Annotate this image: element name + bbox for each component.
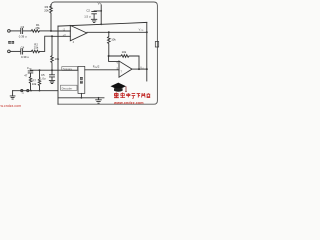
block T2 box [61,85,78,90]
svg-text:10k: 10k [111,37,116,41]
capacitor C2 [92,12,97,20]
ground for C2 [91,19,96,22]
V+ rail wire (sloped) [58,22,147,26]
node D junction (R4 to U2 feedback) [108,55,110,57]
feedback resistor R6 [109,55,139,58]
wire J2 to C4 [10,50,20,52]
svg-text:V+: V+ [98,2,102,6]
node E2 junction (output2 on right bus) [146,68,148,70]
node A junction [50,30,52,32]
svg-text:20k: 20k [44,8,49,12]
capacitor C3 [21,28,23,33]
svg-text:0.39 u: 0.39 u [21,55,29,59]
svg-text:w.cndzz.com: w.cndzz.com [1,104,22,108]
capacitor C5 (decoupling at node I) [50,70,55,80]
watermark chars 虫虫 [114,93,125,98]
potentiometer block TB [78,66,85,93]
input terminal J1 (top) [8,30,11,33]
svg-text:C3: C3 [21,25,25,29]
resistor R2 [31,50,39,53]
wire R2 riser to plus line [40,36,52,51]
capacitor C4 [21,49,23,54]
potentiometer TB vertical text [80,77,83,84]
svg-text:C2: C2 [86,9,90,13]
block T1 box [62,67,78,71]
left vertical wire (V+ rail corner down to bottom border) [57,26,59,104]
resistor R4 (vertical) [108,32,111,56]
ground for C5 [49,80,54,83]
svg-text:/2: /2 [97,64,100,68]
wire U1 output [87,31,147,33]
svg-text:1.5 u: 1.5 u [84,15,91,19]
wire C3 to R1 [23,30,31,32]
border wire loop (top from R3, right side, bottom) [51,2,157,104]
node F junction (output1 on right bus) [146,31,148,33]
node J junction (R7 on mid wire) [39,69,41,71]
svg-text:Decoder: Decoder [62,86,73,90]
svg-text:10k: 10k [55,57,60,61]
terminal circle 2 on rail [27,90,29,92]
capacitor C6 (series with R8) [28,70,33,77]
wire U2 output to right bus [132,68,147,70]
node E junction (feedback to output line) [138,68,140,70]
ground G2 [96,98,102,103]
svg-text:25k: 25k [34,46,39,50]
bottom rail B [58,97,104,99]
terminal circle 1 on rail [21,90,23,92]
connector box on right border [155,42,158,48]
svg-text:1.0u: 1.0u [40,76,46,80]
node G junction (V+ on top wire) [100,23,102,25]
wire R1 to node A [40,30,52,32]
wire C4 to R2 [23,50,31,52]
wire node A to op-amp U1 minus input [51,30,70,32]
resistor R8 (vertical) [29,77,31,91]
resistor R3 (vertical, to top) [50,5,53,32]
wire V+ tap to C2 [94,10,101,13]
node B junction [51,35,53,37]
watermark logo mortarboard [111,83,127,93]
resistor R5 (vertical, from plus node) [51,36,54,70]
svg-text:www.cndzz.com: www.cndzz.com [113,101,144,105]
input terminal J2 (bottom) [8,50,11,53]
node H junction (C2 tap on V+ lead) [100,10,102,12]
svg-text:10k: 10k [122,50,127,54]
V+ supply lead [100,5,102,25]
wire TB bottom lead [80,93,82,97]
ground G1 [10,91,15,99]
op-amp U2 [119,61,132,77]
label 输入 (input, Chinese) [8,41,14,44]
watermark chars 电子下载站 [127,93,151,99]
svg-text:Square: Square [63,67,72,71]
node C junction (output to R4) [108,31,110,33]
wire node B to op-amp U1 plus input [52,35,70,37]
svg-text:47: 47 [24,74,28,78]
svg-text:0.39 u: 0.39 u [19,34,27,38]
op-amp U1 [70,25,87,40]
resistor R1 [31,30,39,33]
wire TB to U2 plus input [85,69,119,71]
right bus wire [146,22,148,81]
svg-text:25k: 25k [35,26,40,30]
wire R4 to U2 minus input [109,56,119,61]
wire J1 to C3 [10,30,20,32]
resistor R7 (vertical) [38,70,40,90]
node N junction (G2 on rail B) [98,97,100,99]
wire R6 to U2 output [138,56,140,69]
svg-text:C4: C4 [21,46,25,50]
bottom left rail [13,90,58,92]
node K junction (R8 on rail) [30,90,32,92]
node M junction (TB on rail B) [81,97,83,99]
node I junction (R5 on mid wire) [51,69,53,71]
svg-text:10k: 10k [32,82,37,86]
node L junction (R7 on rail) [39,90,41,92]
mid wire Fin node [31,69,79,71]
